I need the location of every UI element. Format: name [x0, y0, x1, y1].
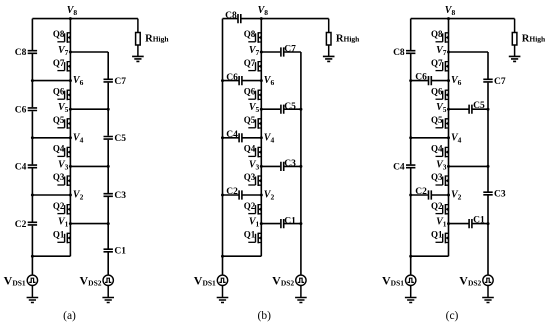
capacitor C5 (b): [281, 102, 296, 114]
junction V5/chain (c): [447, 108, 450, 111]
wire: right column (c): [487, 52, 489, 275]
pulse source VDS1 (b): [194, 273, 228, 287]
capacitor C8 (c): [393, 48, 415, 58]
junction V7/chain (c): [447, 51, 450, 54]
svg-text:C5: C5: [473, 101, 485, 111]
transistor Q1 (a): [53, 230, 71, 244]
capacitor C4 (b): [226, 130, 242, 142]
svg-text:C2: C2: [226, 187, 238, 197]
svg-text:C8: C8: [225, 11, 237, 21]
svg-text:C1: C1: [114, 247, 126, 257]
svg-text:RHigh: RHigh: [145, 34, 169, 45]
pulse source VDS1 (a): [4, 273, 38, 287]
svg-text:C2: C2: [415, 187, 427, 197]
capacitor C4 (c): [393, 163, 415, 173]
svg-text:C6: C6: [415, 73, 427, 83]
junction V6/chain (c): [447, 79, 450, 82]
capacitor C8 (a): [15, 48, 37, 58]
resistor RHigh (c): [512, 19, 546, 57]
ground of RHigh (b): [323, 56, 335, 61]
wire: top rail V8 (a): [32, 18, 137, 20]
svg-text:C4: C4: [226, 130, 238, 140]
junction V3/column (a): [107, 165, 110, 168]
junction V1/chain (b): [260, 222, 263, 225]
wire: node V1 line (c): [449, 223, 489, 225]
capacitor C5 (c): [469, 101, 485, 114]
transistor Q3 (c): [431, 172, 449, 186]
svg-text:Q4: Q4: [53, 144, 65, 154]
junction V3/chain (a): [69, 165, 72, 168]
junction V7/chain (b): [260, 51, 263, 54]
capacitor C1 (b): [281, 216, 296, 228]
transistor Q5 (a): [53, 115, 71, 129]
capacitor C1 (c): [469, 216, 485, 229]
wire: node V3 line (a): [70, 165, 108, 167]
junction V6/rail (a): [31, 79, 34, 82]
transistor Q2 (b): [244, 201, 262, 215]
junction V1/column (c): [487, 222, 490, 225]
svg-text:RHigh: RHigh: [336, 34, 360, 45]
svg-text:C6: C6: [15, 105, 27, 115]
svg-text:C7: C7: [284, 45, 296, 55]
transistor Q6 (c): [431, 86, 449, 100]
wire: node V1 line (a): [70, 223, 108, 225]
wire: node V6 line (b): [223, 80, 262, 82]
pulse source VDS2 (a): [79, 273, 113, 287]
svg-text:Q8: Q8: [244, 29, 256, 39]
svg-text:Q1: Q1: [53, 230, 65, 240]
junction V3/column (b): [299, 165, 302, 168]
ground of RHigh (c): [509, 56, 521, 61]
junction V1/column (b): [299, 222, 302, 225]
transistor Q7 (a): [53, 58, 71, 72]
transistor Q4 (b): [244, 144, 262, 158]
svg-text:C1: C1: [473, 216, 485, 226]
junction V5/column (b): [299, 108, 302, 111]
pulse source VDS2 (c): [459, 273, 493, 287]
junction V1/chain (a): [69, 222, 72, 225]
svg-text:Q1: Q1: [244, 230, 256, 240]
junction rail/bottom (b): [221, 255, 224, 258]
junction V8/chain (a): [69, 17, 72, 20]
resistor RHigh (a): [136, 19, 170, 57]
svg-text:Q3: Q3: [244, 172, 256, 182]
svg-text:C5: C5: [114, 134, 126, 144]
wire: transistor chain (c): [448, 19, 450, 257]
junction V6/chain (b): [260, 79, 263, 82]
junction V1/chain (c): [447, 222, 450, 225]
capacitor C7 (b): [281, 45, 296, 57]
svg-text:Q4: Q4: [431, 144, 443, 154]
wire: left rail (b): [222, 19, 224, 276]
svg-text:Q2: Q2: [431, 201, 443, 211]
svg-text:C3: C3: [284, 159, 296, 169]
junction V5/chain (a): [69, 108, 72, 111]
svg-text:(b): (b): [257, 310, 271, 322]
transistor Q8 (b): [244, 29, 262, 43]
junction V3/column (c): [487, 165, 490, 168]
transistor Q3 (b): [244, 172, 262, 186]
svg-text:C7: C7: [494, 77, 506, 87]
ground of VDS2 (b): [295, 286, 307, 303]
junction V3/chain (c): [447, 165, 450, 168]
svg-text:C3: C3: [114, 191, 126, 201]
wire: bottom return (b): [223, 255, 262, 257]
svg-text:C2: C2: [15, 220, 27, 230]
ground of RHigh (a): [132, 56, 144, 61]
wire: node V3 line (b): [261, 165, 301, 167]
transistor Q2 (a): [53, 201, 71, 215]
svg-text:Q6: Q6: [244, 86, 256, 96]
junction rail/bottom (a): [31, 255, 34, 258]
transistor Q6 (b): [244, 86, 262, 100]
transistor Q2 (c): [431, 201, 449, 215]
junction V2/chain (a): [69, 194, 72, 197]
transistor Q1 (c): [431, 230, 449, 244]
svg-text:Q5: Q5: [244, 115, 256, 125]
svg-text:Q8: Q8: [431, 29, 443, 39]
pulse source VDS1 (c): [382, 273, 416, 287]
transistor Q4 (c): [431, 144, 449, 158]
ground of VDS2 (c): [482, 286, 494, 303]
svg-text:Q6: Q6: [431, 86, 443, 96]
junction V6/rail (b): [221, 79, 224, 82]
junction V4/chain (a): [69, 136, 72, 139]
wire: right column (a): [107, 52, 109, 275]
svg-text:C7: C7: [114, 77, 126, 87]
svg-text:Q2: Q2: [244, 201, 256, 211]
svg-text:C8: C8: [393, 48, 405, 58]
wire: node V7 line (c): [449, 51, 489, 53]
svg-text:C4: C4: [393, 163, 405, 173]
capacitor C6 (c): [415, 73, 431, 86]
svg-text:Q5: Q5: [53, 115, 65, 125]
wire: left rail (a): [31, 19, 33, 276]
wire: bottom return (c): [411, 255, 449, 257]
svg-text:(c): (c): [446, 310, 459, 322]
capacitor C5 (a): [104, 134, 127, 144]
svg-text:(a): (a): [63, 310, 76, 322]
junction V8/chain (b): [260, 17, 263, 20]
junction V5/column (c): [487, 108, 490, 111]
wire: node V4 line (c): [411, 137, 449, 139]
ground of VDS1 (c): [405, 286, 417, 303]
junction V1/column (a): [107, 222, 110, 225]
transistor Q5 (c): [431, 115, 449, 129]
junction V3/chain (b): [260, 165, 263, 168]
junction V5/chain (b): [260, 108, 263, 111]
ground of VDS1 (a): [27, 286, 39, 303]
wire: right column (b): [300, 52, 302, 275]
junction rail/bottom (c): [409, 255, 412, 258]
pulse source VDS2 (b): [272, 273, 306, 287]
junction V6/rail (c): [409, 79, 412, 82]
junction V7/chain (a): [69, 51, 72, 54]
svg-text:C8: C8: [15, 48, 27, 58]
svg-text:C5: C5: [284, 102, 296, 112]
junction V2/rail (b): [221, 194, 224, 197]
wire: bottom return (a): [32, 255, 70, 257]
junction V6/chain (a): [69, 79, 72, 82]
svg-text:RHigh: RHigh: [522, 34, 546, 45]
wire: node V2 line (a): [32, 194, 70, 196]
svg-text:Q3: Q3: [431, 172, 443, 182]
capacitor C2 (a): [15, 220, 37, 230]
capacitor C3 (a): [104, 191, 127, 201]
wire: top rail V8 (b): [223, 18, 329, 20]
svg-text:Q2: Q2: [53, 201, 65, 211]
wire: node V2 line (b): [223, 194, 262, 196]
svg-text:Q8: Q8: [53, 29, 65, 39]
wire: node V7 line (b): [261, 51, 301, 53]
wire: node V6 line (a): [32, 80, 70, 82]
wire: transistor chain (b): [260, 19, 262, 257]
junction V4/rail (c): [409, 136, 412, 139]
junction V4/rail (b): [221, 136, 224, 139]
ground of VDS1 (b): [217, 286, 229, 303]
transistor Q8 (a): [53, 29, 71, 43]
svg-text:C4: C4: [15, 163, 27, 173]
resistor RHigh (b): [326, 19, 360, 57]
capacitor C6 (b): [226, 73, 242, 85]
transistor Q1 (b): [244, 230, 262, 244]
transistor Q6 (a): [53, 86, 71, 100]
transistor Q8 (c): [431, 29, 449, 43]
capacitor C4 (a): [15, 163, 37, 173]
wire: node V2 line (c): [411, 194, 449, 196]
svg-text:Q4: Q4: [244, 144, 256, 154]
svg-text:Q5: Q5: [431, 115, 443, 125]
transistor Q4 (a): [53, 144, 71, 158]
capacitor C7 (c): [483, 77, 506, 87]
wire: node V5 line (b): [261, 108, 301, 110]
junction V2/chain (c): [447, 194, 450, 197]
capacitor C6 (a): [15, 105, 37, 115]
capacitor C8 (b): [225, 11, 241, 23]
svg-text:Q7: Q7: [244, 58, 256, 68]
wire: transistor chain (a): [69, 19, 71, 257]
ground of VDS2 (a): [102, 286, 114, 303]
svg-text:C6: C6: [226, 73, 238, 83]
junction V4/chain (b): [260, 136, 263, 139]
junction V2/rail (a): [31, 194, 34, 197]
junction V4/chain (c): [447, 136, 450, 139]
junction V5/column (a): [107, 108, 110, 111]
transistor Q7 (b): [244, 58, 262, 72]
wire: node V1 line (b): [261, 223, 301, 225]
wire: node V5 line (c): [449, 108, 489, 110]
wire: node V7 line (a): [70, 51, 108, 53]
svg-text:C3: C3: [494, 190, 506, 200]
svg-text:C1: C1: [284, 216, 296, 226]
transistor Q7 (c): [431, 58, 449, 72]
junction V8/chain (c): [447, 17, 450, 20]
wire: node V4 line (b): [223, 137, 262, 139]
svg-text:Q7: Q7: [53, 58, 65, 68]
wire: node V4 line (a): [32, 137, 70, 139]
svg-text:Q6: Q6: [53, 86, 65, 96]
capacitor C2 (b): [226, 187, 242, 199]
junction V4/rail (a): [31, 136, 34, 139]
capacitor C7 (a): [104, 77, 127, 87]
capacitor C1 (a): [104, 247, 127, 257]
capacitor C2 (c): [415, 187, 431, 200]
wire: left rail (c): [410, 19, 412, 276]
capacitor C3 (b): [281, 159, 296, 171]
wire: node V3 line (c): [449, 165, 489, 167]
junction V2/chain (b): [260, 194, 263, 197]
svg-text:Q7: Q7: [431, 58, 443, 68]
transistor Q3 (a): [53, 172, 71, 186]
svg-text:Q3: Q3: [53, 172, 65, 182]
wire: node V5 line (a): [70, 108, 108, 110]
transistor Q5 (b): [244, 115, 262, 129]
junction V2/rail (c): [409, 194, 412, 197]
capacitor C3 (c): [483, 190, 506, 200]
wire: node V6 line (c): [411, 80, 449, 82]
svg-text:Q1: Q1: [431, 230, 443, 240]
wire: top rail V8 (c): [411, 18, 515, 20]
